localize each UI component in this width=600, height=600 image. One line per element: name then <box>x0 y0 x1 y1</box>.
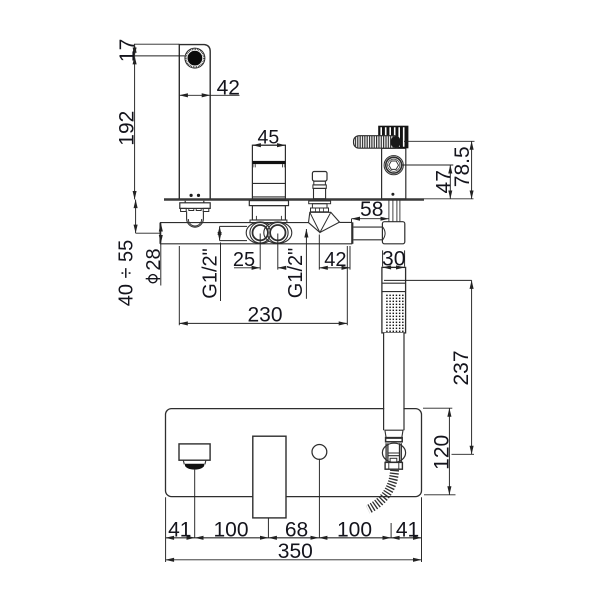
spout aerator disc <box>188 51 203 66</box>
cartridge line mid <box>252 182 285 184</box>
shower swivel housing posts <box>386 443 401 462</box>
svg-text:25: 25 <box>233 249 255 271</box>
svg-text:42: 42 <box>324 249 346 271</box>
mounting plate (top view) <box>166 409 422 497</box>
svg-text:237: 237 <box>450 350 473 385</box>
diverter stem <box>314 188 326 198</box>
elbow block <box>382 222 404 244</box>
dim 40-55 vertical <box>135 200 137 234</box>
svg-text:42: 42 <box>217 76 240 99</box>
svg-text:100: 100 <box>213 519 248 542</box>
dim 17/192 vertical line <box>134 44 136 56</box>
svg-text:41: 41 <box>168 519 191 542</box>
cartridge bottom flange <box>250 220 287 223</box>
holder ring <box>386 157 402 173</box>
cartridge feet <box>256 216 281 220</box>
svg-text:350: 350 <box>278 540 313 563</box>
dim 58 line <box>352 218 389 220</box>
svg-text:58: 58 <box>360 198 383 221</box>
shower swivel ball <box>382 443 405 462</box>
svg-text:100: 100 <box>337 519 372 542</box>
dim 192 vertical <box>134 56 136 200</box>
shower head band lines <box>382 283 406 291</box>
spout shank round bottom <box>187 219 204 228</box>
svg-text:192: 192 <box>116 111 139 146</box>
dim phi28 leader <box>160 244 162 286</box>
spout top view sides <box>183 460 206 464</box>
shower nut band <box>386 438 403 442</box>
dim 237 vertical <box>471 280 473 454</box>
dim 47 vertical <box>449 165 451 199</box>
handle top view <box>253 436 286 518</box>
diverter under-deck stem <box>312 204 327 208</box>
deck (mounting surface) thick line <box>164 198 424 201</box>
svg-text:230: 230 <box>247 303 282 326</box>
svg-text:G1/2": G1/2" <box>199 248 221 298</box>
diverter cone facet lines <box>310 212 331 232</box>
handle tick top view <box>267 518 269 538</box>
dim 25 extensions <box>260 234 278 270</box>
inlet left mid ring <box>250 222 271 243</box>
chain arrows 100b <box>319 537 391 539</box>
cartridge under-deck body <box>252 206 285 220</box>
svg-text:17: 17 <box>116 39 139 62</box>
svg-text:120: 120 <box>431 435 454 470</box>
body bar right end cap <box>351 222 353 243</box>
dim 230 extensions <box>179 246 347 325</box>
label phi28 <box>143 248 165 282</box>
diverter leader top view <box>318 459 320 538</box>
dim G12 first arrows <box>220 226 247 240</box>
inlet right port <box>270 225 285 240</box>
dim 30 extensions <box>383 250 405 266</box>
spout flange notches <box>189 208 201 210</box>
svg-text:41: 41 <box>396 519 419 542</box>
chain arrows 41b <box>391 537 421 539</box>
dim 78.5 tick <box>404 140 475 142</box>
svg-text:G1/2": G1/2" <box>285 248 307 298</box>
chain arrows 100 <box>195 537 268 539</box>
diverter knob band <box>313 185 326 189</box>
shower spray dots <box>386 295 403 332</box>
inlet left port <box>253 225 268 240</box>
svg-text:28: 28 <box>143 248 165 270</box>
diverter knob cap <box>312 172 327 182</box>
diverter cone <box>309 212 340 232</box>
plate bottom extensions <box>166 497 422 562</box>
shower shaft fill <box>384 333 403 433</box>
shower swivel belt <box>388 453 400 456</box>
dim 42 diverter extensions <box>319 235 350 270</box>
cartridge collar under deck <box>249 201 288 206</box>
cartridge band tabs <box>253 164 285 167</box>
dim 25 line <box>234 267 260 269</box>
inlet boss left outer <box>246 222 274 244</box>
body bar left end <box>159 223 161 244</box>
spout aerator dark cup <box>185 464 204 470</box>
hose corrugated <box>368 470 395 510</box>
dim 237 top tick <box>384 279 472 281</box>
dim 120 vertical <box>448 408 450 495</box>
holder handle knurled grip <box>354 136 400 149</box>
cartridge body above deck <box>252 145 285 199</box>
svg-text:40 ÷ 55: 40 ÷ 55 <box>116 240 138 307</box>
holder pipes deck to elbow <box>389 200 400 222</box>
chain arrows 68 <box>268 537 319 539</box>
holder ring outer <box>384 156 403 175</box>
diverter nut <box>311 208 329 212</box>
svg-text:30: 30 <box>382 247 405 270</box>
holder pin <box>391 193 394 196</box>
spout top knurled ring <box>186 49 204 67</box>
dim 17 reference lines <box>134 44 185 56</box>
diverter top view <box>312 445 327 460</box>
holder handle end boss <box>391 136 401 148</box>
dim 42 diverter line <box>319 267 350 269</box>
diverter collar under deck <box>309 201 331 204</box>
dim 120 ticks <box>423 408 456 495</box>
hose leader top view <box>390 523 392 538</box>
dim 47 tick <box>402 164 453 166</box>
dim 237 bottom tick <box>452 453 475 455</box>
svg-text:45: 45 <box>258 126 280 148</box>
deck reference thin extension to right <box>424 198 474 200</box>
body bar top line <box>160 221 352 223</box>
dim 45 line <box>252 144 285 146</box>
spout flange tabs <box>181 208 209 211</box>
shower hose hex nut <box>385 462 402 469</box>
inlet right mid ring <box>268 222 289 243</box>
elbow pipe fillet <box>382 227 385 241</box>
svg-text:78.5: 78.5 <box>451 146 474 187</box>
spout top view body <box>179 444 210 460</box>
cartridge line low <box>252 196 285 198</box>
spout top ring outer <box>185 48 205 68</box>
dim 30 arrows <box>383 266 405 268</box>
spout under-deck stems <box>185 201 204 203</box>
spout under-deck flange <box>180 203 210 209</box>
shower swivel lower box <box>390 458 397 462</box>
chain arrows 41 <box>166 537 195 539</box>
spout body (side view) <box>179 45 210 199</box>
hand shower head <box>382 267 406 333</box>
dim row chain line <box>166 537 422 539</box>
outlet pipe to elbow <box>353 227 382 240</box>
spout leader top view <box>194 470 196 538</box>
dim 42 spout line <box>179 94 210 96</box>
inlet boss right outer <box>264 222 292 244</box>
dim G12 second leader <box>305 229 307 299</box>
diverter knob neck <box>314 181 326 185</box>
dim 230 line <box>179 322 347 324</box>
shower cone <box>385 430 403 438</box>
body bar bottom line <box>160 243 352 245</box>
dim 350 line <box>166 559 422 561</box>
cartridge dark band <box>252 161 285 164</box>
dim 78.5 vertical <box>471 141 473 199</box>
holder knurled block <box>378 126 408 149</box>
spout shank <box>187 212 204 219</box>
shower holder body <box>382 148 406 199</box>
holder hex socket <box>389 161 399 169</box>
shower shaft <box>384 333 404 430</box>
svg-text:68: 68 <box>285 519 308 542</box>
spout deck screws <box>190 194 193 197</box>
holder ring inner <box>388 159 400 171</box>
